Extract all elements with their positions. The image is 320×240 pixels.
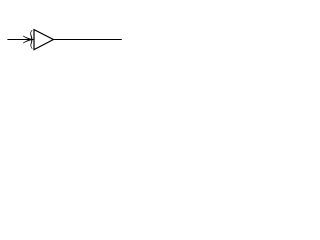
input arrowhead [23, 30, 33, 49]
input wire [7, 39, 33, 41]
buffer amplifier [34, 30, 53, 50]
output wire [53, 39, 121, 41]
